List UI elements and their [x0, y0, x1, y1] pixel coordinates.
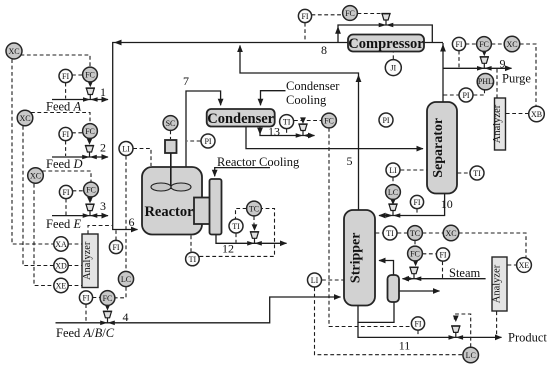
- wire dashed FI1 to feed line: [65, 83, 67, 99]
- instrument FC feed 4: [100, 291, 115, 306]
- wire dashed XA to analyzer: [68, 243, 81, 245]
- instrument XC feed D: [17, 110, 33, 126]
- svg-text:4: 4: [123, 310, 129, 324]
- svg-text:Feed E: Feed E: [46, 217, 81, 231]
- wire stream 5 stripper overhead to recycle: [240, 46, 359, 211]
- wire dashed FI2-FC2: [72, 132, 83, 134]
- instrument TI reactor cooling out: [186, 252, 200, 266]
- wire separator overhead to recycle junction: [442, 43, 444, 103]
- svg-text:5: 5: [347, 154, 353, 168]
- svg-text:FC: FC: [345, 9, 355, 18]
- wire dashed PI separator tap: [444, 94, 459, 96]
- wire dashed FI9-FC9: [466, 43, 477, 45]
- instrument FI purge: [452, 37, 465, 50]
- wire separator bottoms to stripper stream 10: [379, 193, 445, 216]
- wire dashed FC2 to valve 2: [89, 139, 91, 143]
- svg-text:FC: FC: [479, 40, 489, 49]
- svg-text:12: 12: [222, 242, 234, 256]
- instrument FC condenser: [322, 113, 337, 128]
- svg-text:FC: FC: [324, 117, 334, 126]
- wire dashed FI9 to purge line: [458, 51, 460, 68]
- svg-text:Feed A/B/C: Feed A/B/C: [56, 326, 115, 340]
- wire dashed TI separator tap: [458, 172, 470, 174]
- wire dashed FI1-FC1: [72, 74, 83, 76]
- svg-text:FI: FI: [82, 294, 89, 303]
- wire dashed LC down and left to FC4: [116, 287, 127, 298]
- wire arrowhead down on condenser CW outlet corner: [257, 128, 263, 135]
- wire reboiler vapor return to stripper: [379, 261, 394, 276]
- wire compressor bypass line: [338, 25, 432, 43]
- wire dashed LI separator tap: [401, 169, 427, 171]
- valve steam: [407, 267, 422, 281]
- svg-text:10: 10: [441, 197, 453, 211]
- wire dashed LC to valve 10: [392, 200, 394, 203]
- analyzer box left: [82, 234, 98, 288]
- wire dashed LI stripper tap: [322, 279, 344, 281]
- wire dashed purge analyzer sample: [496, 69, 498, 98]
- svg-text:FC: FC: [85, 127, 95, 136]
- wire dashed XC feed D down to XD row: [23, 126, 54, 266]
- svg-text:TI: TI: [283, 118, 291, 127]
- compressor vessel: [348, 35, 424, 52]
- wire dashed XC to XE product loop: [459, 233, 526, 257]
- wire dashed TC to valve 12: [253, 216, 255, 228]
- wire dashed FI8-FC8: [312, 14, 343, 16]
- instrument LI reactor: [119, 142, 133, 156]
- wire dashed product analyzer sample: [496, 311, 498, 337]
- wire feed 1 line (Feed A): [52, 99, 108, 101]
- instrument XE product: [517, 258, 532, 273]
- instrument LC separator: [386, 185, 401, 200]
- svg-text:TI: TI: [189, 255, 197, 264]
- svg-text:Feed D: Feed D: [46, 157, 82, 171]
- wire dashed LI down to LC: [125, 156, 127, 271]
- wire dashed TC to TI reactor: [236, 209, 247, 219]
- svg-text:PI: PI: [382, 116, 389, 125]
- separator vessel: [427, 102, 457, 194]
- wire dashed TI condenser to FC: [294, 120, 321, 122]
- svg-text:XE: XE: [56, 282, 67, 291]
- stripper vessel: [344, 210, 375, 306]
- wire dashed FI product to line: [417, 330, 419, 337]
- valve 4: [100, 311, 115, 325]
- wire dashed FI3-FC3: [73, 190, 84, 192]
- instrument FI feed 1: [59, 69, 72, 82]
- wire dashed TI condenser to line: [286, 129, 288, 135]
- instrument XC feed E: [28, 168, 44, 184]
- wire purge line stream 9: [443, 67, 512, 69]
- instrument FC feed 1: [83, 67, 98, 82]
- wire dashed reactor bottom to TI: [190, 236, 192, 252]
- wire dashed LI to LC separator: [392, 178, 394, 185]
- wire product line stream 11: [358, 322, 502, 337]
- valve 13 condenser cooling: [296, 124, 311, 138]
- wire condenser process outlet to separator: [246, 126, 423, 148]
- svg-text:LC: LC: [121, 275, 131, 284]
- instrument TI stripper: [383, 226, 397, 240]
- instrument FI recycle: [298, 9, 311, 22]
- instrument XA: [54, 237, 68, 251]
- wire feed 4 line (Feed A/B/C) to stripper: [56, 297, 341, 323]
- instrument FC feed 2: [83, 124, 98, 139]
- instrument PI reactor: [201, 134, 215, 148]
- reactor agitator motor: [165, 140, 177, 153]
- valve 12 reactor cooling: [247, 232, 262, 246]
- svg-text:TI: TI: [386, 229, 394, 238]
- wire dashed FI steam to line: [442, 261, 444, 278]
- svg-text:LC: LC: [388, 188, 398, 197]
- wire dashed TC to FC stripper: [414, 241, 416, 246]
- wire condenser cooling inlet: [261, 91, 286, 106]
- instrument PI recycle: [379, 113, 393, 127]
- svg-text:1: 1: [100, 85, 106, 99]
- instrument FI steam: [436, 248, 449, 261]
- svg-text:FI: FI: [413, 198, 420, 207]
- stripper reboiler: [388, 275, 400, 302]
- svg-text:LI: LI: [122, 145, 130, 154]
- instrument FI stream 6: [109, 240, 122, 253]
- svg-text:7: 7: [183, 74, 189, 88]
- instrument LI stripper: [308, 273, 322, 287]
- wire steam line into reboiler: [403, 278, 486, 280]
- instrument XC purge: [504, 36, 520, 52]
- svg-text:TC: TC: [410, 229, 420, 238]
- wire dashed FC4 to valve 4: [107, 306, 109, 309]
- wire dashed FI10 to line: [416, 209, 418, 215]
- wire reboiler side outlet arrow: [399, 290, 440, 292]
- svg-text:FI: FI: [455, 40, 462, 49]
- wire dashed FC3 to valve 3: [90, 197, 92, 201]
- svg-text:LI: LI: [389, 166, 397, 175]
- wire dashed FC1 to valve 1: [89, 82, 91, 85]
- svg-text:FI: FI: [62, 188, 69, 197]
- valve 10 separator bottoms: [386, 204, 401, 218]
- wire dashed analyzer to XB: [506, 113, 529, 115]
- instrument XC feed A: [6, 43, 22, 59]
- instrument FC steam: [408, 246, 423, 261]
- wire dashed SC to agitator motor: [170, 131, 172, 140]
- svg-text:FC: FC: [85, 71, 95, 80]
- svg-text:Cooling: Cooling: [286, 93, 327, 107]
- wire dashed TI-TC stripper: [398, 232, 408, 234]
- wire dashed FI8 to recycle line: [304, 23, 306, 42]
- wire dashed XC feed A down to XA row: [12, 59, 54, 244]
- svg-text:XD: XD: [55, 262, 67, 271]
- svg-text:LI: LI: [311, 276, 319, 285]
- svg-text:Steam: Steam: [449, 266, 481, 280]
- wire dashed LI stripper to LC product: [315, 287, 463, 354]
- wire dashed XC feed A to FC1: [21, 55, 91, 67]
- instrument LC product: [463, 347, 479, 363]
- svg-text:FC: FC: [410, 250, 420, 259]
- wire dashed XE to product analyzer: [508, 264, 517, 266]
- wire dashed TI to valve 12 line: [235, 233, 237, 242]
- instrument XC stripper: [443, 225, 459, 241]
- instrument FC recycle: [343, 6, 358, 21]
- wire dashed PI reactor to stream 7: [187, 140, 201, 142]
- svg-text:Reactor Cooling: Reactor Cooling: [217, 155, 300, 169]
- wire dashed FC condenser long line to FI product: [329, 128, 410, 327]
- svg-text:Analyzer: Analyzer: [492, 104, 503, 143]
- wire dashed XE to analyzer: [68, 285, 81, 287]
- svg-text:TI: TI: [473, 169, 481, 178]
- instrument PHL: [477, 74, 493, 90]
- instrument FC purge: [477, 37, 492, 52]
- valve product: [449, 326, 464, 340]
- svg-text:Purge: Purge: [502, 71, 531, 85]
- svg-text:PI: PI: [204, 137, 211, 146]
- instrument LC reactor level: [118, 271, 133, 286]
- wire condenser cooling water outlet through valve 13: [260, 126, 315, 135]
- reactor nozzle to cooling bar: [194, 198, 211, 225]
- wire feed 2 line (Feed D): [52, 156, 108, 158]
- wire dashed LI reactor level tap: [133, 149, 151, 167]
- instrument TC stripper: [408, 226, 423, 241]
- instrument FC feed 3: [84, 182, 99, 197]
- valve 9 purge: [477, 57, 492, 71]
- svg-text:XC: XC: [445, 229, 456, 238]
- valve 2: [82, 146, 97, 160]
- instrument LI separator: [386, 163, 400, 177]
- reactor cooling bar: [210, 179, 222, 235]
- wire arrowhead left end of recycle line: [114, 40, 122, 46]
- wire dashed JI to compressor: [392, 53, 394, 60]
- svg-text:SC: SC: [166, 119, 176, 128]
- instrument TI condenser: [280, 115, 294, 129]
- svg-text:FI: FI: [62, 72, 69, 81]
- valve 3: [83, 204, 98, 218]
- wire stripper bottoms to reboiler loop: [358, 303, 394, 323]
- svg-text:LC: LC: [466, 351, 476, 360]
- svg-text:PHL: PHL: [478, 77, 493, 86]
- wire arrowhead up on bypass: [335, 26, 341, 34]
- instrument FI product: [411, 317, 424, 330]
- svg-text:9: 9: [500, 56, 506, 70]
- reactor agitator shaft: [170, 153, 172, 189]
- svg-text:11: 11: [399, 339, 411, 353]
- instrument FI feed 4: [79, 291, 92, 304]
- svg-text:FI: FI: [439, 251, 446, 260]
- wire dashed FC9 to valve 9: [483, 52, 485, 54]
- svg-text:TC: TC: [249, 205, 259, 214]
- instrument TI reactor: [229, 219, 243, 233]
- svg-text:6: 6: [129, 215, 135, 229]
- wire dashed analyzer sample from stream 6: [88, 226, 112, 235]
- svg-text:XA: XA: [55, 240, 67, 249]
- wire reactor cooling outlet through valve 12: [216, 235, 287, 244]
- svg-text:2: 2: [100, 141, 106, 155]
- wire dashed FC8 to bypass valve: [358, 13, 381, 15]
- wire dashed FI4 to feed line: [85, 304, 87, 322]
- svg-text:Stripper: Stripper: [349, 233, 364, 284]
- instrument XB purge: [529, 106, 545, 122]
- svg-text:XC: XC: [30, 172, 41, 181]
- svg-text:Condenser: Condenser: [207, 111, 274, 127]
- svg-text:FI: FI: [62, 130, 69, 139]
- svg-text:FI: FI: [414, 320, 421, 329]
- wire dashed PI to PHL: [474, 91, 485, 96]
- svg-text:Analyzer: Analyzer: [82, 241, 93, 280]
- instrument SC agitator: [163, 116, 178, 131]
- svg-text:Separator: Separator: [431, 118, 446, 178]
- instrument XE: [54, 278, 68, 292]
- svg-text:Compressor: Compressor: [348, 36, 424, 52]
- wire dashed FC to steam valve: [414, 261, 416, 264]
- valve 8 compressor bypass: [379, 14, 394, 28]
- wire feed 3 line (Feed E): [52, 215, 108, 217]
- valve 1: [83, 88, 98, 102]
- wire arrowhead up separator overhead: [440, 44, 446, 52]
- wire arrowhead up on stream 5 vertical: [356, 75, 362, 83]
- svg-text:XE: XE: [519, 261, 530, 270]
- svg-text:XC: XC: [506, 40, 517, 49]
- wire dashed stripper TI tap: [376, 232, 383, 234]
- reactor agitator blades: [151, 183, 171, 191]
- instrument TI separator: [470, 166, 484, 180]
- instrument PI separator: [459, 88, 473, 102]
- svg-text:FI: FI: [301, 12, 308, 21]
- svg-text:Product: Product: [508, 331, 547, 345]
- wire dashed TC-XC stripper: [423, 232, 444, 234]
- condenser vessel: [207, 109, 275, 127]
- wire dashed LC product to valve: [454, 314, 470, 347]
- wire dashed XD to analyzer: [68, 265, 81, 267]
- svg-text:XC: XC: [8, 47, 19, 56]
- wire dashed FI4-FC4: [93, 297, 101, 299]
- svg-text:XC: XC: [19, 114, 30, 123]
- wire dashed XC feed E down to XE row: [34, 184, 54, 286]
- wire dashed XC9 to XB: [520, 44, 536, 106]
- svg-text:FC: FC: [86, 186, 96, 195]
- instrument XD: [54, 258, 68, 272]
- wire reactor cooling inlet with label line: [215, 168, 270, 177]
- wire dashed FI6 to stream 6 line: [115, 230, 117, 240]
- svg-text:XB: XB: [531, 110, 542, 119]
- analyzer box product: [492, 257, 507, 311]
- wire dashed XC feed D to FC2: [31, 113, 90, 124]
- wire main recycle line stream 8 (compressor discharge to feed mixing): [113, 43, 443, 230]
- svg-text:JI: JI: [390, 64, 396, 73]
- instrument FI feed 3: [59, 185, 72, 198]
- svg-text:8: 8: [321, 43, 327, 57]
- svg-text:13: 13: [268, 125, 280, 139]
- instrument FI feed 2: [59, 127, 72, 140]
- reactor vessel: [142, 167, 202, 235]
- instrument FI stream 10: [410, 195, 423, 208]
- svg-text:FI: FI: [112, 243, 119, 252]
- svg-text:3: 3: [100, 199, 106, 213]
- svg-text:PI: PI: [462, 91, 469, 100]
- wire dashed branch to valve 13: [302, 121, 304, 122]
- svg-text:Condenser: Condenser: [286, 79, 340, 93]
- wire stream 7 reactor overhead to condenser: [186, 91, 221, 168]
- instrument JI compressor: [385, 60, 401, 76]
- svg-text:Analyzer: Analyzer: [492, 264, 503, 303]
- wire dashed TI bottom loop to TC: [200, 209, 275, 257]
- svg-text:TI: TI: [232, 222, 240, 231]
- wire dashed FC9-XC9: [492, 43, 505, 45]
- svg-text:Reactor: Reactor: [144, 204, 194, 220]
- wire dashed FI3 to feed line: [65, 199, 67, 215]
- wire dashed FI2 to feed line: [65, 141, 67, 156]
- wire dashed FC-FI steam: [423, 253, 437, 255]
- wire dashed XC feed E to FC3: [42, 171, 91, 182]
- instrument TC reactor: [247, 201, 262, 216]
- svg-text:Feed A: Feed A: [46, 100, 81, 114]
- svg-text:FC: FC: [103, 294, 113, 303]
- analyzer box purge: [495, 98, 506, 150]
